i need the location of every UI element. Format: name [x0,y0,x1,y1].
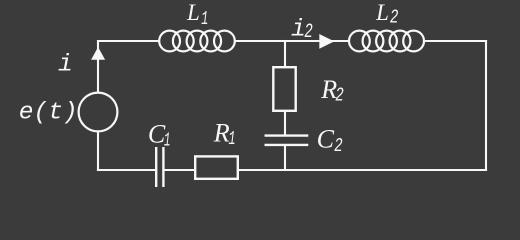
wire: branch segment below C2 [284,145,286,171]
svg-text:e(t): e(t) [19,99,78,126]
svg-text:i: i [58,52,73,79]
current arrow i2 [319,34,334,49]
wire: top rail middle segment [235,40,351,42]
inductor L2 [349,31,424,52]
svg-text:C2: C2 [317,124,343,157]
wire: left vertical upper segment [97,41,99,93]
wire: branch segment between R2 and C2 [284,111,286,137]
wire: bottom rail right segment [239,169,488,171]
resistor R1 [195,156,238,178]
svg-text:L2: L2 [375,0,398,28]
wire: left vertical lower segment [97,131,99,171]
wire: bottom rail segment between C1 and R1 [165,169,196,171]
svg-text:R1: R1 [213,119,236,151]
svg-text:L1: L1 [186,0,208,30]
wire: bottom rail left segment [97,169,155,171]
inductor L1 [159,31,235,52]
wire: top rail right segment [424,40,487,42]
svg-text:i2: i2 [291,17,313,45]
voltage source e(t) [79,93,118,132]
wire: right vertical segment [485,40,487,171]
capacitor C2 [265,136,309,145]
svg-text:R2: R2 [320,75,344,107]
current arrow i [91,47,105,60]
wire: top rail left segment [97,40,160,42]
wire: R2 branch upper segment [284,40,286,67]
svg-text:C1: C1 [148,119,171,151]
resistor R2 [273,67,295,111]
capacitor C1 [156,147,163,187]
